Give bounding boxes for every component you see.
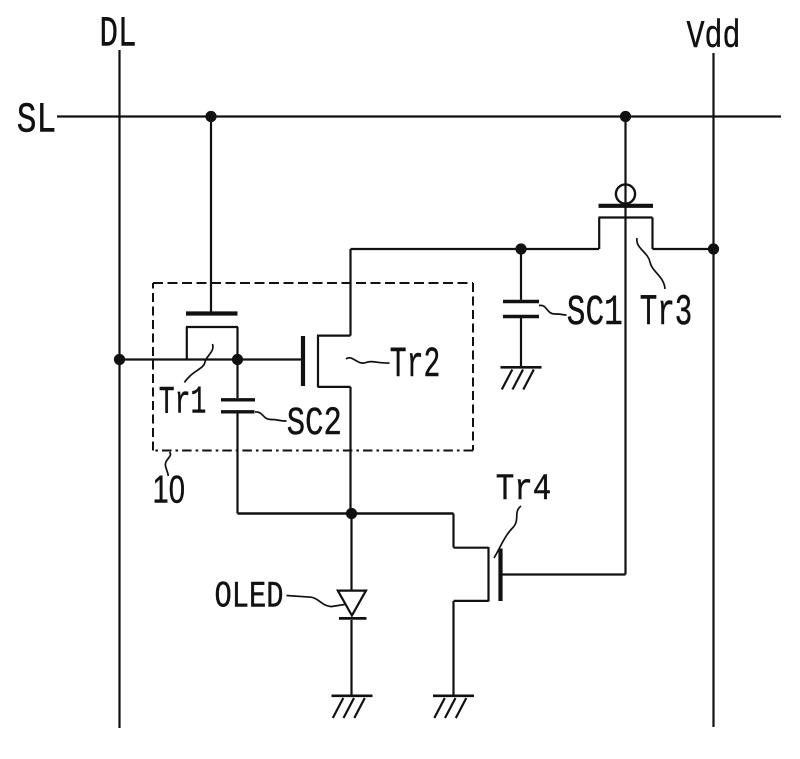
svg-text:Vdd: Vdd bbox=[687, 15, 741, 59]
junction dot: Tr1 drain x SC2 bbox=[232, 354, 243, 365]
leader squiggle for Tr4 bbox=[494, 506, 521, 558]
capacitor SC1 bbox=[503, 249, 539, 366]
svg-text:10: 10 bbox=[153, 469, 186, 512]
leader squiggle for Tr1 bbox=[185, 344, 213, 383]
power rail Vdd (vertical) bbox=[712, 53, 714, 727]
junction dot: SC1 top bbox=[515, 243, 526, 254]
svg-text:SC2: SC2 bbox=[287, 402, 342, 447]
transistor Tr3 (with gate bubble) bbox=[599, 184, 654, 249]
junction dot: SL x Tr3 gate line bbox=[620, 111, 631, 122]
junction dot: DL x row wire bbox=[114, 354, 125, 365]
ground under Tr4 bbox=[433, 696, 474, 718]
wire: DL row to Tr2 gate (horizontal, node A) bbox=[120, 358, 302, 360]
ground under OLED bbox=[332, 696, 373, 718]
transistor Tr1 bbox=[186, 314, 238, 360]
wire: SL to Tr3/Tr4 gates (vertical) bbox=[624, 117, 626, 575]
OLED diode D1 bbox=[338, 514, 367, 695]
wire: gate lead to Tr4 (horizontal) bbox=[501, 573, 626, 575]
svg-text:Tr2: Tr2 bbox=[390, 340, 441, 389]
junction dot: OLED node bbox=[346, 508, 357, 519]
leader squiggle for SC2 bbox=[255, 412, 287, 421]
data line DL (vertical rail) bbox=[118, 50, 120, 728]
wire: Tr3 drain to Vdd bbox=[653, 248, 714, 250]
junction dot: SL x Tr1 gate bbox=[205, 111, 216, 122]
svg-text:Tr1: Tr1 bbox=[159, 381, 207, 425]
wire: SL to Tr1 gate bbox=[210, 117, 212, 312]
wire: node B row to Tr4 drain (horizontal) bbox=[238, 512, 454, 515]
leader squiggle for Tr2 bbox=[346, 358, 390, 363]
svg-text:Tr3: Tr3 bbox=[640, 288, 693, 338]
svg-text:SC1: SC1 bbox=[567, 288, 623, 337]
svg-text:SL: SL bbox=[17, 97, 57, 145]
leader squiggle for Tr3 bbox=[637, 238, 665, 289]
leader squiggle for SC1 bbox=[539, 305, 567, 315]
leader line for OLED bbox=[287, 596, 345, 607]
scan line SL (horizontal) bbox=[57, 115, 781, 117]
svg-text:Tr4: Tr4 bbox=[496, 469, 552, 511]
transistor Tr2 bbox=[303, 249, 351, 514]
ground under SC1 bbox=[501, 367, 542, 389]
dashed pixel-internal box (net 10) bbox=[153, 283, 473, 451]
svg-text:DL: DL bbox=[100, 11, 137, 59]
wire: Tr2 drain to Tr3 source (horizontal) bbox=[351, 248, 600, 250]
leader squiggle for 10 bbox=[165, 452, 170, 476]
capacitor SC2 bbox=[221, 360, 255, 514]
junction dot: Vdd x Tr3 drain bbox=[708, 243, 719, 254]
transistor Tr4 bbox=[454, 514, 501, 695]
svg-text:OLED: OLED bbox=[215, 577, 284, 619]
